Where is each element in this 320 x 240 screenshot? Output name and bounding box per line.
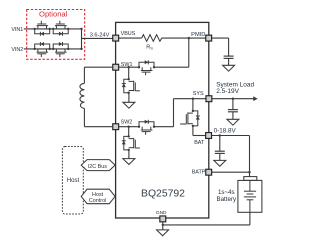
- inductor L1: [80, 67, 85, 127]
- wire BATP to battery: [212, 171, 250, 173]
- svg-text:I2C Bus: I2C Bus: [88, 164, 107, 170]
- capacitor C2 (SYS): [228, 99, 238, 120]
- label BQ25792: [141, 188, 185, 199]
- svg-text:2.5-19V: 2.5-19V: [216, 88, 239, 95]
- op-amp U1 BQ25792 IC outline: [116, 22, 209, 218]
- pin GND: [156, 210, 167, 222]
- svg-text:PMID: PMID: [191, 32, 205, 38]
- label 2.5-19V: [216, 88, 239, 95]
- wire VIN1 row: [24, 28, 82, 30]
- wire SW1 to inductor: [84, 66, 113, 68]
- svg-text:VIN2: VIN2: [11, 47, 23, 53]
- wire input merge vertical: [80, 28, 82, 50]
- label 0-18.8V: [214, 127, 237, 134]
- svg-text:SYS: SYS: [193, 91, 204, 97]
- svg-text:Battery: Battery: [216, 196, 237, 203]
- svg-text:Host: Host: [92, 192, 104, 198]
- transistor Q2 (VIN1 blocking FET b): [52, 21, 69, 36]
- ground main: [157, 230, 169, 236]
- svg-text:BATP: BATP: [192, 170, 206, 176]
- svg-text:Host: Host: [67, 178, 80, 184]
- resistor RS: [142, 35, 162, 51]
- pin BATP: [192, 169, 212, 175]
- svg-text:BAT: BAT: [194, 140, 205, 146]
- host box (dashed): [62, 147, 83, 215]
- svg-text:3.6-24V: 3.6-24V: [90, 32, 110, 38]
- I2C Bus tag: [81, 160, 115, 171]
- wire Rs to PMID: [162, 37, 206, 39]
- battery BT1: [238, 172, 262, 212]
- pin VBUS: [113, 31, 136, 41]
- capacitor C1 (PMID): [224, 55, 234, 65]
- svg-text:VIN1: VIN1: [11, 27, 23, 33]
- wire SYS load line: [212, 98, 253, 100]
- node PMID rail junction: [188, 37, 190, 39]
- svg-text:Control: Control: [89, 198, 106, 204]
- wire PMID to cap: [212, 38, 229, 56]
- transistor Q7 (buck high-side FET2): [138, 120, 155, 135]
- pin SW2: [113, 119, 133, 129]
- wire SW2 down to LS FET2: [128, 127, 130, 137]
- svg-text:GND: GND: [156, 210, 167, 216]
- ground under C2: [227, 119, 239, 125]
- pin SW1: [113, 62, 133, 70]
- transistor Q8 (buck low-side FET2): [122, 135, 140, 151]
- pin SYS: [193, 91, 212, 102]
- node SYS cap tap: [232, 98, 234, 100]
- wire SYS internal: [174, 98, 207, 100]
- transistor Q9 (BATFET): [180, 110, 200, 127]
- svg-text:BQ25792: BQ25792: [141, 188, 185, 199]
- wire VBUS to Rs: [119, 37, 142, 39]
- ground under LS FET2: [123, 150, 135, 165]
- ground under C3: [214, 160, 226, 166]
- ground under LS FET1: [123, 93, 135, 109]
- wire SYS down to BATFET: [192, 99, 194, 111]
- optional input selector box (red dashed): [27, 10, 85, 60]
- transistor Q6 (buck low-side FET1): [122, 78, 140, 94]
- svg-text:SW1: SW1: [121, 62, 133, 68]
- label 3.6-24V: [90, 32, 110, 38]
- wire battery return: [163, 212, 250, 225]
- svg-text:Optional: Optional: [39, 10, 68, 19]
- node battery junction: [248, 171, 250, 173]
- wire HS FET2 right: [154, 126, 174, 128]
- node GND junction: [162, 224, 164, 226]
- svg-text:0-18.8V: 0-18.8V: [214, 127, 237, 134]
- svg-text:VBUS: VBUS: [121, 31, 136, 37]
- wire inductor to SW2: [84, 126, 113, 128]
- node BAT cap tap: [219, 134, 221, 136]
- pin PMID: [191, 32, 211, 41]
- svg-text:S: S: [150, 46, 153, 51]
- node SW2 junction: [128, 126, 130, 128]
- wire SW2 to HS FET2: [119, 126, 139, 128]
- Host Control tag: [81, 189, 115, 204]
- node VIN1 label: [11, 27, 23, 33]
- wire SW1 down to LS FET1: [128, 67, 130, 79]
- arrow system load: [253, 96, 258, 101]
- node BATFET tap: [192, 98, 194, 100]
- wire HS FET1 to PMID rail: [154, 66, 189, 68]
- wire BATFET to BAT pin: [193, 126, 206, 136]
- capacitor C3 (BAT): [215, 136, 225, 161]
- svg-text:SW2: SW2: [121, 119, 133, 125]
- transistor Q5 (buck high-side FET1): [138, 60, 155, 75]
- wire GND stub: [162, 221, 164, 230]
- wire BAT to battery: [212, 136, 250, 173]
- ground under C1: [223, 65, 235, 71]
- node SW1 junction: [128, 66, 130, 68]
- wire FET2 up to SYS: [173, 99, 175, 127]
- wire SW1 to HS FET1: [119, 66, 139, 68]
- label Optional: [39, 10, 68, 19]
- label System Load: [216, 81, 254, 88]
- transistor Q1 (VIN1 blocking FET a): [34, 21, 51, 36]
- wire merged input to VBUS: [82, 37, 114, 39]
- transistor Q3 (VIN2 blocking FET a): [34, 42, 51, 57]
- wire VIN2 row: [24, 48, 82, 50]
- pin BAT: [194, 133, 211, 146]
- wire PMID rail down to HS FET1: [188, 38, 190, 67]
- transistor Q4 (VIN2 blocking FET b): [52, 42, 69, 57]
- node VIN2 label: [11, 47, 23, 53]
- label 1s-4s Battery: [216, 189, 237, 203]
